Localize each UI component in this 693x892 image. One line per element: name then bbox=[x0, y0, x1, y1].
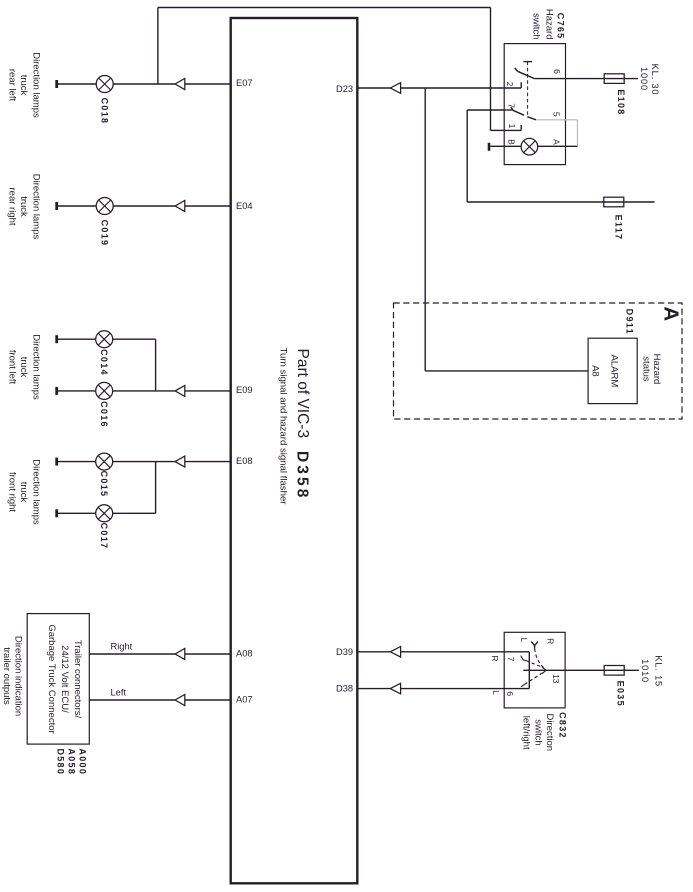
svg-text:rear right: rear right bbox=[6, 187, 17, 225]
svg-text:C017: C017 bbox=[99, 523, 109, 550]
svg-text:E117: E117 bbox=[614, 215, 624, 241]
svg-text:front right: front right bbox=[6, 472, 17, 512]
svg-text:1010: 1010 bbox=[640, 659, 650, 683]
svg-text:A000: A000 bbox=[78, 748, 88, 775]
svg-text:A08: A08 bbox=[236, 649, 253, 659]
svg-text:C015: C015 bbox=[99, 471, 109, 498]
svg-text:Direction lamps: Direction lamps bbox=[30, 334, 41, 400]
svg-text:E035: E035 bbox=[616, 681, 626, 707]
svg-text:trailer outputs: trailer outputs bbox=[1, 647, 12, 705]
svg-text:switch: switch bbox=[533, 719, 544, 745]
svg-text:left/right: left/right bbox=[521, 716, 532, 750]
svg-text:7: 7 bbox=[507, 103, 517, 108]
svg-text:KL. 15: KL. 15 bbox=[654, 655, 664, 687]
svg-text:truck: truck bbox=[18, 357, 29, 378]
svg-text:E108: E108 bbox=[616, 89, 626, 115]
svg-text:status: status bbox=[640, 356, 651, 382]
svg-text:front left: front left bbox=[6, 350, 17, 385]
svg-text:A: A bbox=[660, 306, 683, 321]
svg-text:D23: D23 bbox=[336, 84, 353, 94]
svg-text:A8: A8 bbox=[590, 365, 601, 377]
svg-text:C765: C765 bbox=[556, 13, 566, 40]
svg-text:truck: truck bbox=[18, 482, 29, 503]
svg-text:Turn signal and hazard signal: Turn signal and hazard signal flasher bbox=[278, 348, 289, 506]
svg-text:1000: 1000 bbox=[639, 67, 649, 91]
svg-text:2: 2 bbox=[505, 82, 515, 87]
svg-text:E04: E04 bbox=[236, 201, 253, 211]
svg-text:Trailer connectors/: Trailer connectors/ bbox=[72, 640, 83, 719]
svg-text:Hazard: Hazard bbox=[543, 9, 554, 40]
svg-text:E07: E07 bbox=[236, 78, 253, 88]
svg-text:R: R bbox=[545, 638, 555, 644]
svg-text:1: 1 bbox=[507, 124, 517, 129]
svg-text:Garbage Truck Connector: Garbage Truck Connector bbox=[46, 624, 57, 733]
svg-text:rear left: rear left bbox=[6, 69, 17, 102]
svg-text:E08: E08 bbox=[236, 456, 253, 466]
svg-text:R: R bbox=[490, 655, 500, 661]
svg-text:6: 6 bbox=[552, 69, 562, 74]
svg-text:ALARM: ALARM bbox=[608, 355, 619, 388]
svg-text:Right: Right bbox=[111, 642, 133, 652]
svg-text:truck: truck bbox=[18, 196, 29, 217]
svg-text:Direction lamps: Direction lamps bbox=[30, 52, 41, 118]
svg-text:6: 6 bbox=[505, 691, 515, 696]
svg-text:truck: truck bbox=[18, 75, 29, 96]
svg-text:Direction lamps: Direction lamps bbox=[30, 459, 41, 525]
svg-text:A: A bbox=[551, 139, 561, 145]
svg-text:Hazard: Hazard bbox=[651, 354, 662, 385]
svg-text:C018: C018 bbox=[99, 98, 109, 125]
svg-text:D38: D38 bbox=[336, 684, 353, 694]
svg-text:D39: D39 bbox=[336, 647, 353, 657]
svg-text:D580: D580 bbox=[56, 748, 66, 775]
svg-text:A07: A07 bbox=[236, 695, 253, 705]
svg-text:13: 13 bbox=[551, 674, 561, 684]
svg-text:KL. 30: KL. 30 bbox=[650, 64, 660, 96]
svg-text:A058: A058 bbox=[67, 748, 77, 775]
svg-text:Left: Left bbox=[111, 688, 127, 698]
svg-text:7: 7 bbox=[506, 657, 516, 662]
svg-text:switch: switch bbox=[531, 13, 542, 39]
svg-text:C019: C019 bbox=[99, 220, 109, 247]
svg-text:Part of VIC-3 D358: Part of VIC-3 D358 bbox=[294, 349, 311, 501]
svg-text:Direction lamps: Direction lamps bbox=[30, 174, 41, 240]
svg-text:L: L bbox=[519, 638, 529, 643]
svg-text:C832: C832 bbox=[557, 712, 567, 739]
svg-text:C014: C014 bbox=[99, 349, 109, 376]
svg-text:Direction: Direction bbox=[544, 714, 555, 752]
svg-text:C016: C016 bbox=[99, 401, 109, 428]
svg-text:5: 5 bbox=[551, 112, 561, 117]
svg-text:B: B bbox=[507, 139, 517, 145]
svg-text:Direction indication: Direction indication bbox=[13, 636, 24, 716]
svg-text:E09: E09 bbox=[236, 385, 253, 395]
svg-text:24/12 Volt ECU/: 24/12 Volt ECU/ bbox=[59, 645, 70, 713]
svg-text:D911: D911 bbox=[624, 309, 634, 335]
svg-text:L: L bbox=[491, 690, 501, 695]
